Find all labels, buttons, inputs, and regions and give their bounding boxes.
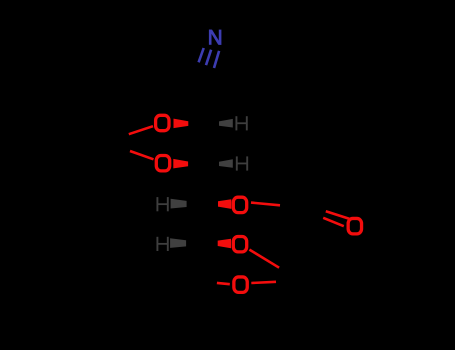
nitrile N label	[209, 30, 222, 45]
H label on C5	[156, 237, 168, 251]
C=O double bond red half, lower line	[323, 218, 344, 226]
bond O-C(acetal) red half, right segment	[251, 282, 276, 283]
O label, C4 ester oxygen	[233, 197, 246, 212]
H label on C3	[236, 156, 248, 170]
nitrile C≡N triple bond, line 3	[214, 51, 219, 68]
wedge bond C2-O (red half)	[174, 119, 189, 129]
bond O-C(acetal) red half, lower	[130, 151, 154, 159]
bond C6-O red half, left segment	[217, 283, 230, 284]
wedge bond C3-H (gray half)	[219, 159, 233, 168]
nitrile C≡N triple bond, line 2	[206, 50, 211, 65]
H label on C4	[156, 197, 168, 211]
O label, carbonyl oxygen	[348, 218, 361, 233]
bond O-C(=O) red half	[251, 203, 280, 206]
nitrile C≡N triple bond (blue half), line 1	[199, 48, 204, 62]
O label, C3 ring oxygen (upper-left dioxolane)	[156, 156, 169, 171]
O label, C6 ring oxygen (lower dioxolane)	[234, 277, 247, 292]
bond O-C(acetal) red half, upper	[129, 126, 153, 134]
H label on C2	[235, 116, 247, 130]
wedge bond C4-H (gray half)	[171, 199, 187, 209]
wedge bond C5-O (red half)	[218, 239, 231, 249]
wedge bond C3-O (red half)	[173, 159, 188, 169]
bond O-C(acetal) red half, down-right diagonal	[249, 250, 279, 268]
O label, C5 ring oxygen (lower dioxolane)	[233, 237, 246, 252]
wedge bond C2-H (gray half)	[219, 119, 233, 128]
C=O double bond red half, upper line	[326, 211, 349, 218]
O label, C2 ring oxygen (upper-left dioxolane)	[156, 115, 169, 130]
wedge bond C5-H (gray half)	[170, 238, 186, 248]
wedge bond C4-O (red half)	[218, 199, 231, 209]
